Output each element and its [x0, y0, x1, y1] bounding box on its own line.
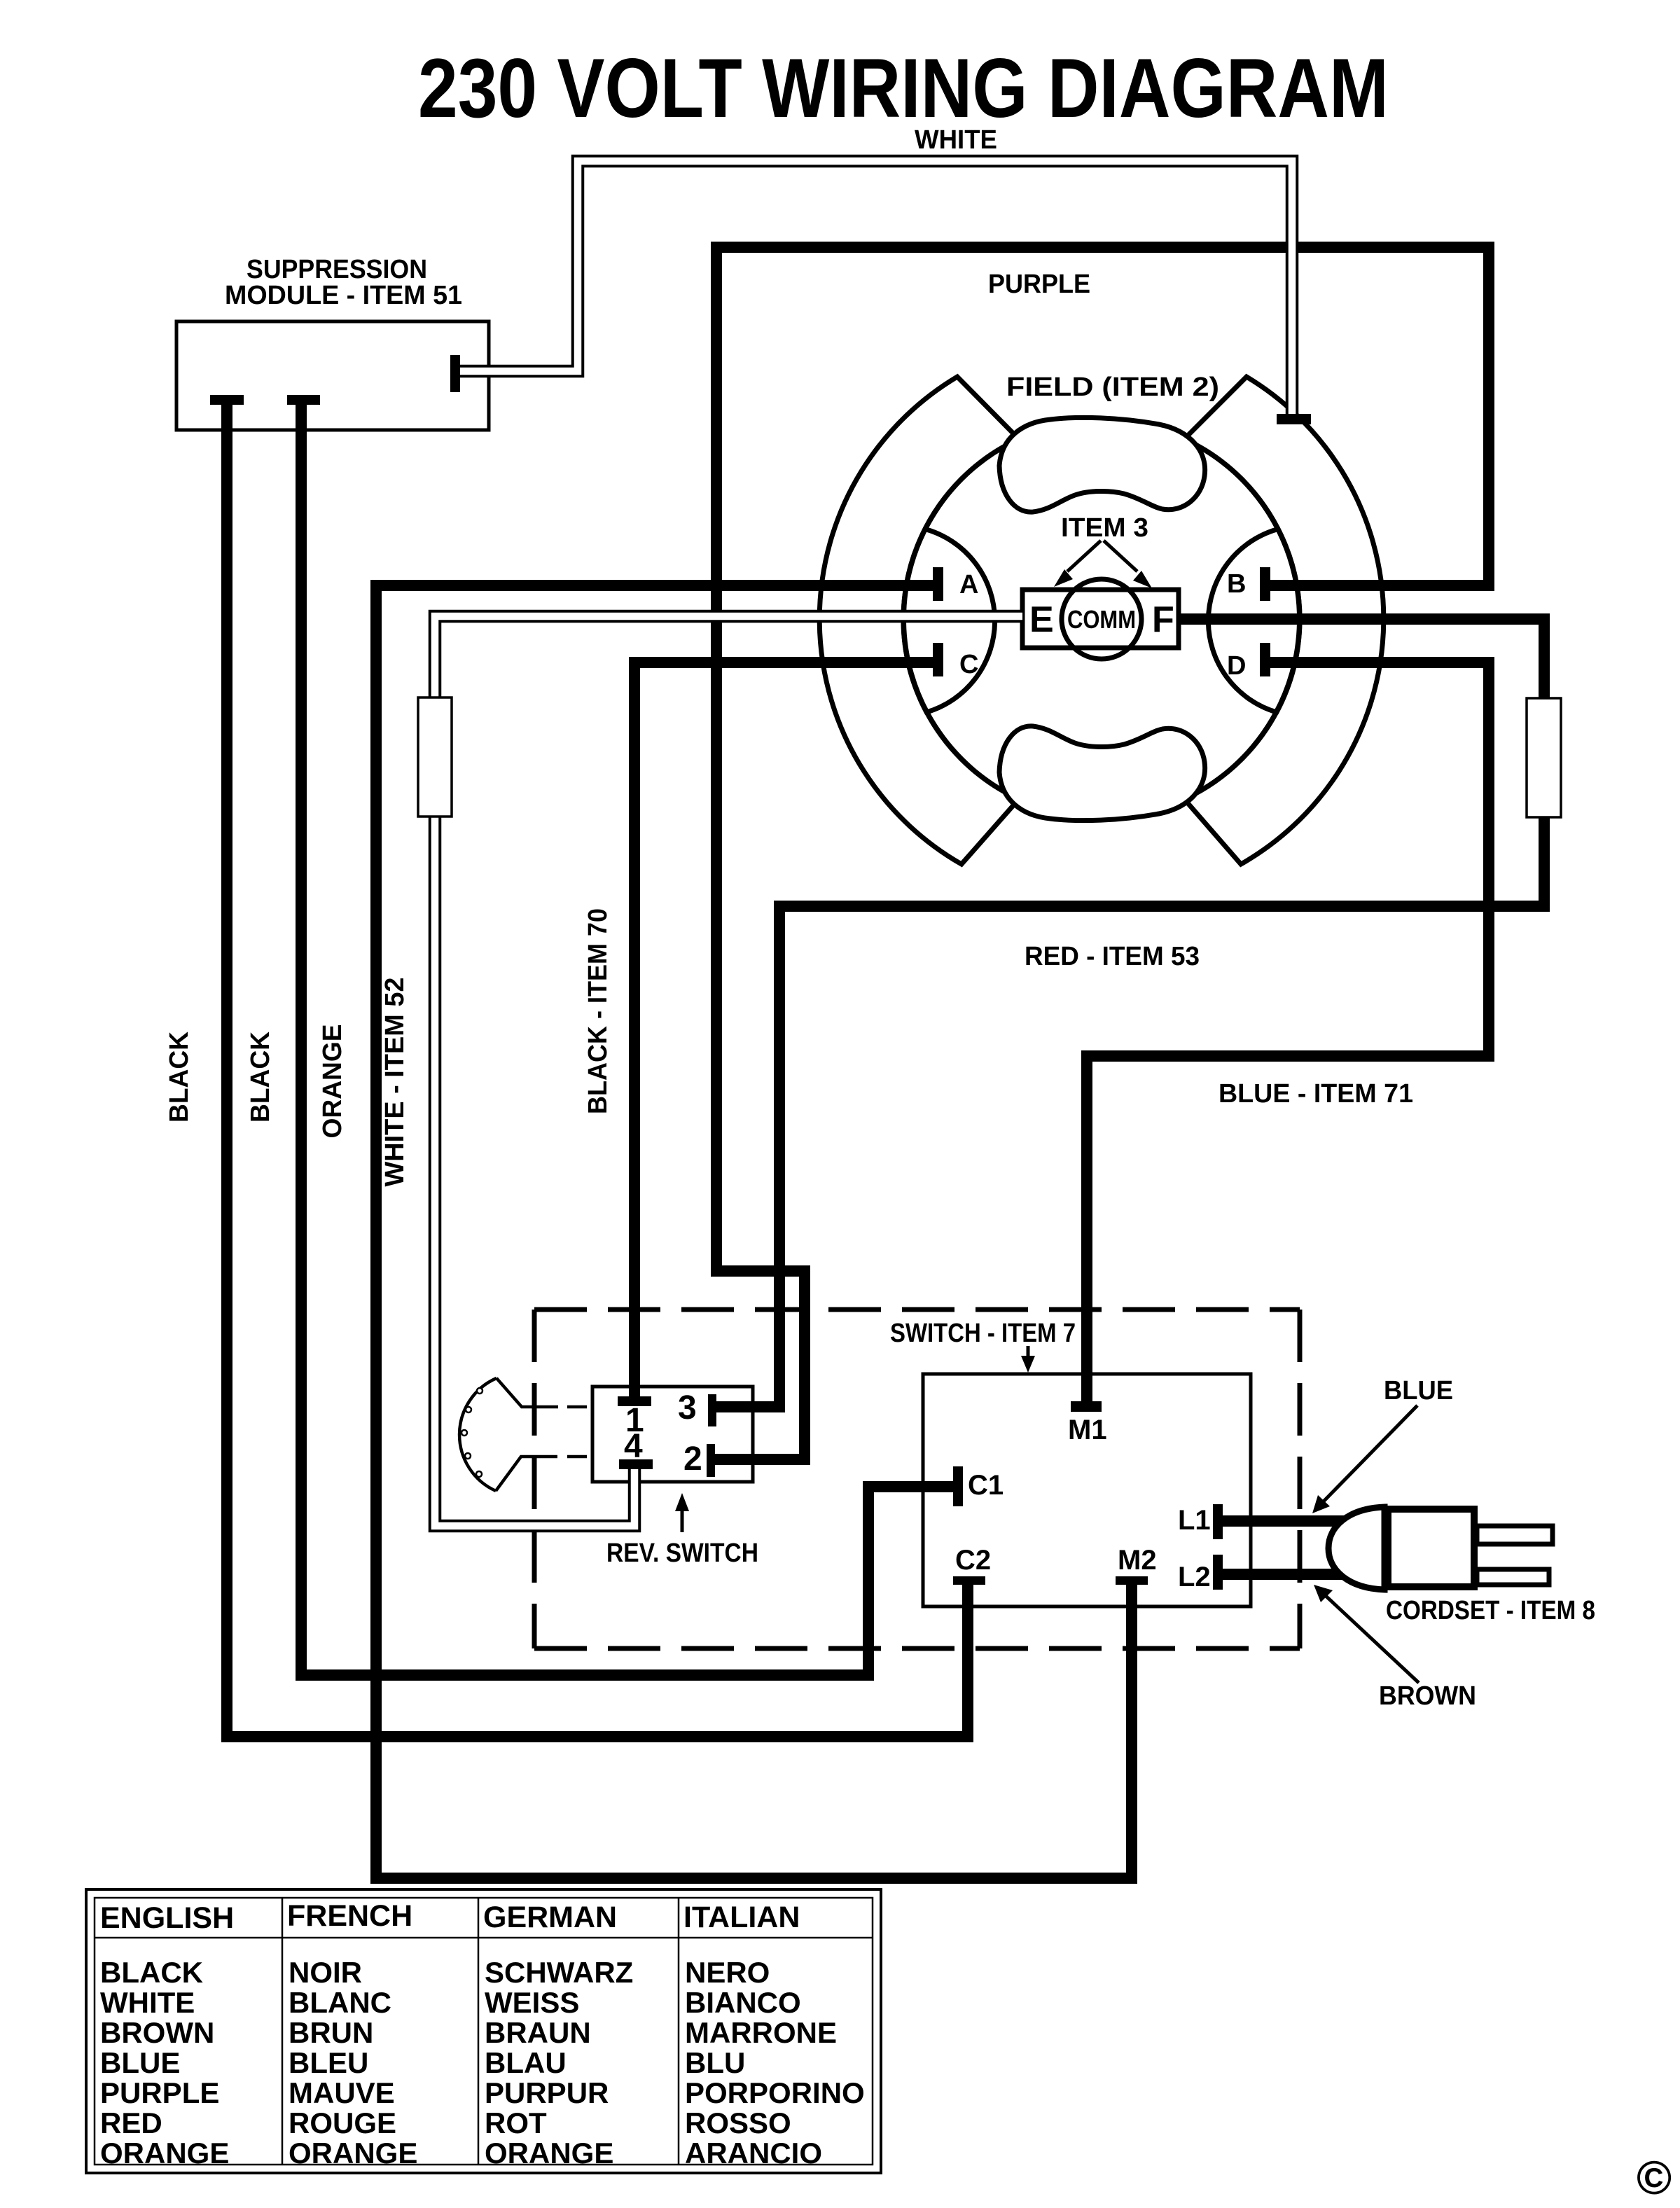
svg-text:BIANCO: BIANCO [685, 1986, 801, 2019]
rev pin3 bar [708, 1394, 716, 1426]
svg-text:B: B [1227, 569, 1246, 599]
svg-text:ARANCIO: ARANCIO [685, 2137, 822, 2169]
module terminal bar 1 [210, 395, 244, 405]
svg-text:RED: RED [100, 2106, 162, 2139]
svg-text:2: 2 [683, 1440, 702, 1478]
svg-text:RED - ITEM 53: RED - ITEM 53 [1025, 942, 1200, 971]
svg-text:C: C [959, 650, 978, 679]
svg-text:PURPUR: PURPUR [485, 2076, 609, 2109]
svg-text:BROWN: BROWN [100, 2016, 214, 2049]
wire: orange run A->down->right->up to M2 [376, 585, 1132, 1878]
fan pin circles [477, 1388, 483, 1394]
svg-text:3: 3 [678, 1389, 697, 1426]
M2 terminal bar [1116, 1576, 1148, 1585]
svg-text:BLU: BLU [685, 2046, 745, 2079]
svg-text:BROWN: BROWN [1379, 1681, 1476, 1711]
suppression module box [176, 321, 489, 430]
svg-text:PURPLE: PURPLE [988, 270, 1090, 299]
right choke [1527, 698, 1561, 817]
svg-text:F: F [1152, 599, 1174, 640]
switch arrow [1027, 1346, 1030, 1361]
module terminal bar 2 [287, 395, 320, 405]
dashed switch boundary box [534, 1310, 1300, 1648]
wire: D -> down -> blue item 71 -> M1 [1087, 662, 1489, 1406]
wire: L2 to plug [1223, 1569, 1376, 1580]
L2 terminal bar [1213, 1555, 1223, 1590]
svg-text:ORANGE: ORANGE [318, 1025, 347, 1139]
svg-text:PURPLE: PURPLE [100, 2076, 219, 2109]
svg-text:MARRONE: MARRONE [685, 2016, 837, 2049]
svg-text:D: D [1227, 651, 1246, 681]
L1 terminal bar [1213, 1504, 1223, 1539]
svg-text:BLAU: BLAU [485, 2046, 567, 2079]
terminal bar D [1260, 643, 1270, 676]
ITEM 3 arrow right [1104, 541, 1137, 571]
fan funnel bottom [496, 1457, 557, 1491]
svg-text:ORANGE: ORANGE [100, 2137, 229, 2169]
svg-text:BLACK: BLACK [165, 1031, 194, 1123]
svg-text:ORANGE: ORANGE [485, 2137, 613, 2169]
svg-text:WHITE - ITEM 52: WHITE - ITEM 52 [380, 978, 410, 1187]
svg-text:M1: M1 [1068, 1415, 1107, 1445]
wire: purple, rev pin2 -> up -> top rect -> B [715, 247, 1489, 1459]
rev pin2 bar [707, 1444, 715, 1477]
svg-text:BLACK - ITEM 70: BLACK - ITEM 70 [583, 908, 613, 1114]
rev switch arrow [681, 1504, 684, 1532]
svg-text:ROSSO: ROSSO [685, 2106, 791, 2139]
svg-text:ROUGE: ROUGE [289, 2106, 396, 2139]
svg-text:SUPPRESSION: SUPPRESSION [247, 255, 427, 284]
terminal bar A [933, 567, 943, 601]
svg-text:ITEM 3: ITEM 3 [1061, 513, 1148, 543]
svg-text:MAUVE: MAUVE [289, 2076, 395, 2109]
rev pin1 bar [618, 1396, 651, 1406]
svg-text:WEISS: WEISS [485, 1986, 579, 2019]
svg-text:NOIR: NOIR [289, 1956, 362, 1989]
svg-text:COMM: COMM [1067, 605, 1136, 634]
svg-text:L2: L2 [1178, 1562, 1211, 1592]
svg-text:M2: M2 [1118, 1545, 1157, 1576]
plug prong bottom [1477, 1569, 1549, 1585]
switch solid box ITEM 7 [923, 1374, 1251, 1606]
svg-text:ITALIAN: ITALIAN [683, 1901, 800, 1934]
svg-text:FIELD (ITEM 2): FIELD (ITEM 2) [1006, 373, 1219, 402]
wire: black stem1 -> down -> right -> up to C2 [227, 405, 968, 1737]
svg-text:E: E [1029, 599, 1054, 640]
fan connector arc [459, 1378, 497, 1491]
C1 terminal bar [953, 1466, 963, 1506]
wire: L1 to plug [1223, 1515, 1376, 1527]
rev switch box [592, 1387, 753, 1482]
white wire E -> left -> down -> right -> up to rev pin4 (double line) [435, 616, 1022, 1526]
plug dome [1328, 1507, 1384, 1590]
field outer arc (top-left pole, ITEM 2) [819, 377, 1019, 864]
svg-text:230 VOLT WIRING DIAGRAM: 230 VOLT WIRING DIAGRAM [418, 41, 1389, 135]
module white-wire terminal bar [450, 355, 460, 392]
terminal bar C [933, 643, 943, 676]
ITEM 3 arrow left [1067, 541, 1101, 571]
svg-text:C2: C2 [955, 1545, 991, 1576]
svg-text:ORANGE: ORANGE [289, 2137, 417, 2169]
svg-text:SWITCH - ITEM 7: SWITCH - ITEM 7 [890, 1319, 1076, 1348]
svg-text:BLUE - ITEM 71: BLUE - ITEM 71 [1219, 1079, 1413, 1109]
svg-text:PORPORINO: PORPORINO [685, 2076, 865, 2109]
white wire from module to field (double line) [460, 161, 1292, 419]
plug body [1388, 1509, 1474, 1587]
M1 terminal bar [1071, 1401, 1102, 1412]
svg-text:©: © [1637, 2151, 1672, 2204]
svg-text:SCHWARZ: SCHWARZ [485, 1956, 633, 1989]
wire: C2 bar down [962, 1585, 973, 1737]
fan dashes to rev box [567, 1407, 587, 1457]
svg-text:REV. SWITCH: REV. SWITCH [606, 1539, 758, 1568]
svg-text:WHITE: WHITE [915, 125, 997, 155]
terminal bar B [1260, 567, 1270, 601]
svg-text:BLEU: BLEU [289, 2046, 368, 2079]
svg-text:NERO: NERO [685, 1956, 770, 1989]
svg-text:GERMAN: GERMAN [483, 1901, 617, 1934]
rev pin4 bar [619, 1459, 653, 1469]
white wire terminal bar on field [1277, 414, 1311, 424]
COMM circle [1062, 579, 1141, 659]
svg-text:WHITE: WHITE [100, 1986, 195, 2019]
C2 terminal bar [953, 1576, 985, 1585]
left choke (white rect over white wire) [418, 697, 452, 817]
wire: black item 70, C->left->down to rev pin1 [634, 662, 933, 1401]
svg-text:4: 4 [624, 1428, 643, 1465]
field coil top bean [999, 417, 1205, 512]
field outer arc (bottom-right pole) [1184, 377, 1384, 864]
COMM box [1022, 590, 1179, 648]
left brush lens [903, 529, 995, 713]
svg-text:MODULE - ITEM 51: MODULE - ITEM 51 [225, 281, 462, 310]
armature inner circle [903, 421, 1300, 817]
svg-text:BLANC: BLANC [289, 1986, 391, 2019]
wire: red item 53, rev pin3 -> up -> right -> up through choke to COMM F [716, 619, 1544, 1407]
svg-text:C1: C1 [968, 1470, 1004, 1501]
svg-text:BLUE: BLUE [100, 2046, 180, 2079]
wire: black stem2 -> down -> right -> up to C1 [301, 405, 953, 1675]
svg-text:BLACK: BLACK [246, 1031, 275, 1123]
fan funnel top [497, 1378, 558, 1407]
right brush lens [1208, 529, 1300, 713]
svg-text:BRUN: BRUN [289, 2016, 373, 2049]
svg-text:FRENCH: FRENCH [287, 1899, 412, 1933]
svg-text:CORDSET - ITEM 8: CORDSET - ITEM 8 [1386, 1596, 1595, 1625]
LANGUAGE TABLE [86, 1889, 881, 2173]
svg-text:L1: L1 [1178, 1505, 1211, 1536]
svg-text:ENGLISH: ENGLISH [100, 1901, 234, 1935]
field coil bottom bean [999, 726, 1205, 821]
svg-text:BRAUN: BRAUN [485, 2016, 591, 2049]
plug prong top [1477, 1526, 1553, 1544]
svg-text:BLACK: BLACK [100, 1956, 203, 1989]
svg-text:BLUE: BLUE [1384, 1376, 1453, 1405]
svg-text:ROT: ROT [485, 2106, 547, 2139]
svg-text:A: A [959, 570, 978, 599]
